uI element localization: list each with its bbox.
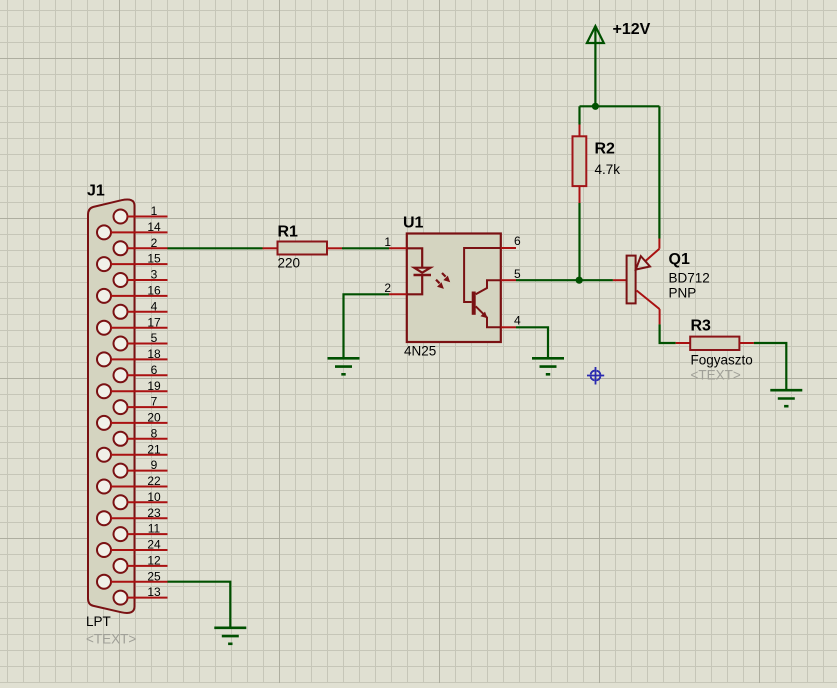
svg-text:24: 24 — [147, 538, 161, 552]
wire node to R2 top — [578, 106, 580, 124]
svg-text:12: 12 — [147, 554, 161, 568]
wire U1 pin5 to Q1 base — [516, 279, 613, 281]
svg-text:19: 19 — [147, 379, 161, 393]
svg-text:LPT: LPT — [86, 614, 111, 629]
wire power node horizontal — [580, 105, 660, 107]
svg-text:J1: J1 — [87, 183, 105, 200]
svg-text:220: 220 — [278, 256, 301, 271]
svg-text:R3: R3 — [691, 318, 712, 335]
U1 internal phototransistor — [464, 248, 501, 327]
svg-text:1: 1 — [384, 235, 391, 249]
svg-text:11: 11 — [148, 522, 161, 536]
wire R3 to ground — [754, 343, 786, 390]
U1 pin 1 — [384, 235, 407, 249]
svg-text:10: 10 — [147, 490, 161, 504]
J1 pin 18 — [97, 347, 168, 366]
svg-text:3: 3 — [151, 268, 158, 282]
svg-text:5: 5 — [514, 267, 521, 281]
svg-text:9: 9 — [151, 458, 158, 472]
svg-text:7: 7 — [151, 395, 158, 409]
svg-text:U1: U1 — [403, 215, 424, 232]
wire U1 pin4 to ground — [516, 327, 548, 358]
svg-text:16: 16 — [147, 284, 161, 298]
svg-text:20: 20 — [147, 411, 161, 425]
svg-text:R1: R1 — [278, 224, 299, 241]
svg-text:<TEXT>: <TEXT> — [691, 368, 741, 383]
J1 pin 3 — [114, 268, 168, 287]
svg-text:6: 6 — [151, 363, 158, 377]
J1 pin 12 — [114, 554, 168, 573]
svg-text:15: 15 — [147, 252, 161, 266]
J1 pin 21 — [97, 442, 168, 461]
J1 pin 13 — [114, 585, 168, 604]
connector J1 body — [88, 199, 135, 612]
power +12V symbol — [587, 26, 604, 106]
wire J1 pin25 to ground — [168, 582, 231, 628]
svg-text:<TEXT>: <TEXT> — [86, 632, 136, 647]
svg-text:22: 22 — [147, 474, 161, 488]
svg-text:14: 14 — [147, 220, 161, 234]
svg-text:25: 25 — [147, 569, 161, 583]
origin marker — [587, 367, 604, 385]
wire J1 pin2 to R1 — [168, 247, 263, 249]
J1 pin 19 — [97, 379, 168, 398]
wire R2 bottom to base junction — [578, 203, 580, 280]
J1 pin 16 — [97, 284, 168, 303]
ground below R3 — [770, 390, 802, 406]
svg-text:+12V: +12V — [613, 21, 651, 38]
svg-text:13: 13 — [147, 585, 161, 599]
wire U1 pin2 to ground — [344, 294, 390, 358]
svg-text:4: 4 — [151, 299, 158, 313]
J1 pin 25 — [97, 569, 168, 588]
svg-text:Fogyaszto: Fogyaszto — [691, 353, 753, 368]
svg-text:17: 17 — [147, 315, 161, 329]
junction node at Q1 base net — [576, 277, 583, 284]
J1 pin 4 — [114, 299, 168, 318]
U1 pin 6 — [501, 234, 521, 248]
J1 pin 6 — [114, 363, 168, 382]
J1 pin 24 — [97, 538, 168, 557]
J1 pin 17 — [97, 315, 168, 334]
svg-text:2: 2 — [384, 281, 391, 295]
J1 pin 7 — [114, 395, 168, 414]
transistor Q1 BD712 — [627, 239, 660, 325]
resistor R3 — [676, 337, 754, 350]
svg-text:R2: R2 — [595, 141, 616, 158]
svg-text:5: 5 — [151, 331, 158, 345]
svg-text:18: 18 — [147, 347, 161, 361]
wire R1 to U1 pin1 — [342, 247, 389, 249]
svg-text:4: 4 — [514, 313, 521, 327]
J1 pin 14 — [97, 220, 168, 239]
svg-text:23: 23 — [147, 506, 161, 520]
svg-text:4N25: 4N25 — [404, 344, 436, 359]
U1 pin 5 — [501, 267, 521, 281]
op-to coupler U1 4N25 body — [407, 234, 501, 343]
J1 pin 10 — [114, 490, 168, 509]
wire Q1 collector to R3 — [660, 324, 676, 343]
ground below U1 pin2 — [328, 358, 360, 374]
J1 pin 5 — [114, 331, 168, 350]
U1 light arrows — [436, 273, 450, 289]
resistor R2 — [573, 125, 587, 204]
transistor Q1 base stub — [613, 279, 627, 281]
J1 pin 20 — [97, 411, 168, 430]
svg-text:Q1: Q1 — [669, 251, 690, 268]
svg-text:2: 2 — [151, 236, 158, 250]
U1 pin 4 — [501, 313, 521, 327]
junction node at +12V rail — [592, 103, 599, 110]
svg-text:1: 1 — [151, 204, 158, 218]
svg-text:PNP: PNP — [669, 286, 697, 301]
resistor R1 — [263, 242, 343, 255]
ground below U1 pin4 — [532, 358, 564, 374]
J1 pin 8 — [114, 426, 168, 445]
J1 pin 1 — [114, 204, 168, 223]
J1 pin 11 — [114, 522, 168, 541]
U1 internal LED — [407, 248, 431, 294]
svg-text:8: 8 — [151, 426, 158, 440]
svg-text:6: 6 — [514, 234, 521, 248]
svg-text:4.7k: 4.7k — [595, 162, 621, 177]
svg-text:21: 21 — [147, 442, 161, 456]
J1 pin 9 — [114, 458, 168, 477]
J1 pin 15 — [97, 252, 168, 271]
wire +12V node to Q1 emitter — [658, 106, 660, 238]
svg-text:BD712: BD712 — [669, 271, 710, 286]
J1 pin 22 — [97, 474, 168, 493]
J1 pin 23 — [97, 506, 168, 525]
ground below J1 pin25 — [214, 628, 246, 644]
U1 pin 2 — [384, 281, 407, 295]
J1 pin 2 — [114, 236, 168, 255]
